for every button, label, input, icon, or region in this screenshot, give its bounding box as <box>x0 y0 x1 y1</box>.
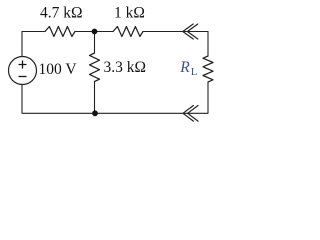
svg-text:R: R <box>179 59 190 76</box>
resistor R 3.3 kOhm (vertical) <box>90 53 100 82</box>
connector arrow top lead <box>183 24 198 39</box>
svg-text:4.7 kΩ: 4.7 kΩ <box>40 5 83 22</box>
label RL <box>179 59 198 78</box>
wire: 3.3k to node b <box>94 82 96 114</box>
wire: 1k to top-right corner, down to RL <box>143 32 208 57</box>
resistor RL (vertical) <box>203 56 213 82</box>
label 3.3 kOhm <box>104 59 147 76</box>
voltage source polarity marks <box>19 61 27 77</box>
wire: node b to source bottom <box>22 85 95 114</box>
wire: node a down to 3.3k <box>94 32 96 54</box>
svg-text:100 V: 100 V <box>39 61 78 78</box>
resistor R 1 kOhm <box>113 27 143 37</box>
node a junction dot <box>92 29 98 35</box>
voltage source V 100V circle <box>9 57 37 85</box>
svg-text:L: L <box>191 66 198 78</box>
label 4.7 kOhm <box>40 5 83 22</box>
resistor R 4.7 kOhm <box>45 27 75 37</box>
label 100 V <box>39 61 78 78</box>
svg-text:1 kΩ: 1 kΩ <box>114 4 145 21</box>
label 1 kOhm <box>114 4 145 21</box>
wire: RL to bottom-right corner, to node b <box>95 82 208 113</box>
node b junction dot <box>92 110 98 116</box>
wire top-left: source to 4.7k <box>22 32 45 57</box>
wire: node a to 1k <box>95 31 114 33</box>
svg-text:3.3 kΩ: 3.3 kΩ <box>104 59 147 76</box>
connector arrow bottom lead <box>183 106 198 122</box>
wire: 4.7k to node a <box>75 31 95 33</box>
